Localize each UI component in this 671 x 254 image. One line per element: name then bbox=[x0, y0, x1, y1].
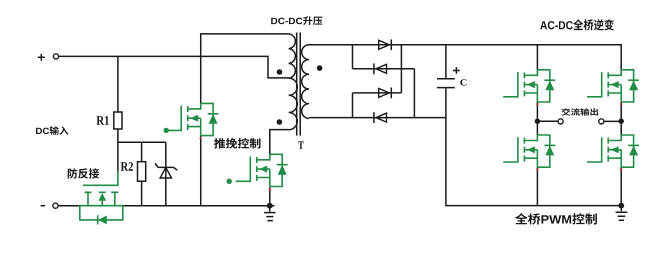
junction node at left ground bbox=[267, 203, 273, 209]
wire: Q2 source to ground rail bbox=[269, 187, 271, 206]
wire: rectifier row3 bbox=[353, 92, 402, 94]
solder mark Q4 bbox=[620, 103, 622, 105]
label "T" bbox=[298, 141, 303, 148]
label "防反接" bbox=[68, 168, 99, 178]
wire: bottom rail left bbox=[58, 205, 274, 207]
wire: rectifier row2 bbox=[353, 68, 415, 70]
transistor Q7 anti-reverse (horizontal) gate wire bbox=[83, 171, 118, 185]
label "交流输出" bbox=[562, 108, 598, 115]
transformer T secondary winding bbox=[302, 45, 309, 119]
junction node right ground bbox=[618, 203, 624, 209]
wire: zener branch bbox=[165, 142, 167, 206]
wire: AC output left bbox=[537, 120, 558, 122]
ground GND2 bbox=[620, 206, 622, 212]
Q7 body arrow bbox=[99, 193, 107, 201]
wire: rectifier jumper row1-row3 bbox=[400, 45, 402, 93]
wire: AC output right bbox=[604, 120, 621, 122]
junction node AC out left bbox=[535, 119, 540, 124]
label "全桥PWM控制" bbox=[515, 213, 597, 224]
wire: Q1 source to ground rail bbox=[200, 136, 202, 206]
solder mark Q1 bbox=[200, 137, 202, 139]
diode D4 bbox=[374, 112, 387, 123]
Q7 source-drain wire bbox=[79, 205, 124, 207]
transformer T primary winding bbox=[289, 34, 298, 130]
label "DC输入" bbox=[36, 126, 68, 135]
zener diode D5 bbox=[155, 163, 178, 170]
minus marker DC input bbox=[41, 205, 46, 207]
transistor Q5 bridge lower-left bbox=[503, 135, 555, 167]
wire: rectifier jumper row2-row4 bbox=[413, 69, 415, 118]
transformer core bbox=[297, 33, 301, 136]
plus marker capacitor bbox=[453, 67, 460, 74]
Q7 leads bbox=[88, 192, 115, 205]
label "推挽控制" bbox=[214, 138, 260, 149]
transistor Q2 push-pull lower bbox=[236, 154, 288, 186]
terminal: DC input - bbox=[53, 203, 58, 208]
diode D2 bbox=[374, 63, 387, 74]
solder mark Q3 bbox=[536, 103, 538, 105]
polarity dot primary upper bbox=[277, 69, 283, 75]
solder mark Q5 bbox=[536, 168, 538, 170]
polarity dot primary lower bbox=[277, 119, 283, 125]
label "C" bbox=[460, 79, 466, 85]
Q7 diode arrow bbox=[98, 216, 107, 225]
wire: rectifier jumper row3-row4 bbox=[352, 93, 354, 118]
junction node AC out right bbox=[619, 119, 624, 124]
solder mark Q2 bbox=[269, 188, 271, 190]
diode D1 bbox=[379, 39, 392, 50]
gate node dot Q1 bbox=[164, 128, 169, 133]
Q7 diode cathode bar bbox=[97, 215, 99, 224]
diode D3 bbox=[379, 88, 392, 99]
wire: left inverter leg bbox=[536, 45, 538, 206]
transistor Q4 bridge upper-right bbox=[587, 70, 639, 102]
wire: rectifier row4 (secondary bottom) bbox=[309, 117, 446, 119]
wire: C bottom / negative rail bbox=[446, 88, 621, 205]
wire: R2 branch bbox=[141, 142, 143, 206]
plus marker DC input bbox=[38, 54, 45, 61]
Q7 bypass diode loop bbox=[80, 206, 123, 220]
label "R1" bbox=[97, 116, 109, 125]
wire: transformer top to Q1 drain bbox=[201, 34, 289, 104]
label "R2" bbox=[121, 162, 133, 171]
wire: transformer bottom to Q2 drain bbox=[270, 130, 289, 155]
solder mark Q6 bbox=[620, 168, 622, 170]
terminal: AC output left bbox=[558, 119, 563, 124]
label "DC-DC升压" bbox=[271, 16, 322, 25]
capacitor C bbox=[445, 45, 447, 78]
wire: + rail to transformer center tap bbox=[59, 56, 289, 78]
wire: rectifier jumper row1-row2 bbox=[352, 45, 354, 69]
Q7 channel segments bbox=[85, 191, 119, 193]
label "AC-DC全桥逆变" bbox=[540, 19, 614, 30]
polarity dot secondary bbox=[317, 65, 323, 71]
terminal: AC output right bbox=[599, 119, 604, 124]
wire: branch to R1 bbox=[117, 56, 119, 112]
wire: top rail (secondary top through rectifier to right leg) bbox=[309, 45, 621, 70]
transistor Q1 push-pull upper bbox=[167, 103, 219, 135]
wire: right inverter leg bbox=[620, 102, 622, 206]
ground GND1 bbox=[269, 206, 271, 212]
gate node dot Q2 bbox=[227, 179, 232, 184]
wire: R1 bottom to divider node bbox=[118, 129, 166, 172]
resistor R2 bbox=[138, 162, 146, 182]
resistor R1 bbox=[114, 112, 122, 129]
transistor Q6 bridge lower-right bbox=[587, 135, 639, 167]
terminal: DC input + bbox=[53, 54, 58, 59]
transistor Q3 bridge upper-left bbox=[503, 70, 555, 102]
